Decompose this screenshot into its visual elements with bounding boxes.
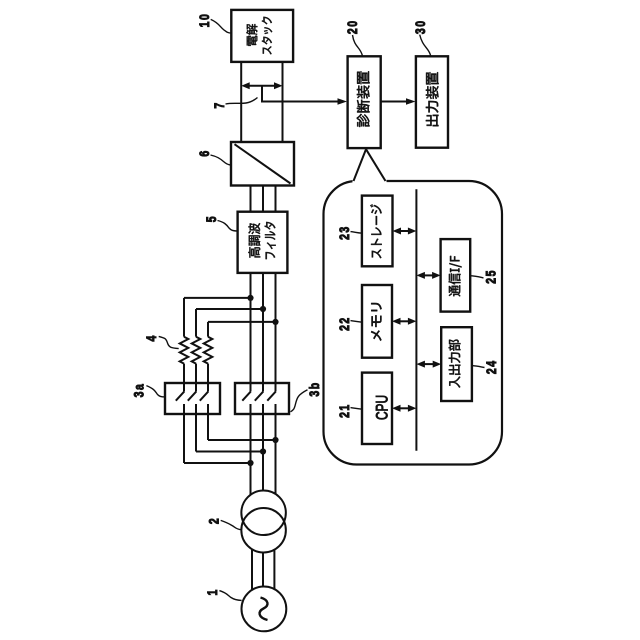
arrowhead into diagnostic device 20 [336,101,339,103]
leader line for numeral 30 [420,35,431,56]
AC power source circle 1 [242,587,287,632]
internal bus line [415,189,417,451]
svg-text:10: 10 [196,13,212,28]
balloon tail upper line [354,149,367,181]
wire: branch return jog phase 2 [196,451,263,453]
switch blade 3a pole 2 [188,391,197,400]
leader line for numeral 23 [351,232,363,234]
wire: filter 5 to converter 6, phase 1 [250,186,252,212]
leader line for numeral 7 [226,98,258,105]
label text "高調波" (line 1, box 5) [248,223,260,258]
wire: filter 5 to converter 6, phase 2 [262,186,264,212]
wire: branch 1 right segment (resistor to tap) [183,298,185,337]
balloon tail lower line [366,149,386,181]
output device box 30 [416,56,448,147]
label text "メモリ" (box 22) [371,303,382,341]
svg-text:1: 1 [205,588,221,595]
CPU box 21 [362,373,392,444]
wire: branch tap jog phase 2 [196,308,263,310]
double-headed measurement arrow 7 across DC rails [248,85,275,87]
label text "診断装置" (box 20) [357,71,370,127]
leader line for numeral 2 [221,520,242,529]
leader line for numeral 10 [211,19,232,33]
leader line for numeral 3a [146,386,165,397]
double arrow: bus to communication I/F [423,274,433,276]
leader line for numeral 21 [351,408,363,410]
leader line for numeral 20 [353,35,363,56]
label text "フィルタ" (line 2, box 5) [264,222,275,259]
storage box 23 [362,196,393,267]
wire: measurement tap from arrow 7 toward diagnostic device [262,86,337,102]
wire: source to transformer, phase 1 [251,549,253,590]
converter diagonal line [235,144,291,183]
svg-text:7: 7 [212,101,228,108]
transformer 2, left winding circle [241,508,286,553]
resistor on branch 2 [192,337,201,364]
transformer 2, right winding circle [241,491,286,536]
svg-text:24: 24 [484,359,500,374]
electrolysis stack box 10 [231,10,293,62]
wire: DC rail 1, converter 6 to stack 10 [240,62,242,142]
leader line for numeral 22 [351,321,363,323]
switch box 3a (breaker on measuring branch) [165,383,220,414]
wire: branch 2 middle segment [195,364,197,392]
wire: source to transformer, phase 3 [273,550,275,590]
leader line for numeral 25 [470,276,483,278]
leader line for numeral 5 [218,221,237,232]
svg-text:4: 4 [144,334,160,341]
svg-text:3b: 3b [307,381,323,396]
communication I/F box 25 [441,239,471,312]
wire: branch 2 left segment [195,404,197,452]
label text "出力装置" (box 30) [426,72,439,126]
switch box 3b (breaker on main lines) [235,383,289,414]
I/O unit box 24 [441,327,472,401]
svg-text:6: 6 [197,149,213,156]
switch blade 3b pole 2 [255,391,263,400]
double arrow: bus to I/O unit [423,363,434,365]
node B1: junction dot on phase 1 at branch tap [247,295,253,301]
double arrow: storage to bus [400,230,410,232]
wire: phase 1, switch 3b to filter 5 [250,273,252,392]
wire: branch tap jog phase 1 [184,297,251,299]
svg-text:5: 5 [204,215,220,222]
wire: branch 1 left segment [183,404,185,463]
wire: source to transformer, phase 2 [262,553,264,587]
wire: branch return jog phase 1 [184,462,251,464]
double arrow: memory to bus [399,320,409,322]
arrow: diagnostic device 20 to output device 30 [381,101,406,103]
svg-text:21: 21 [337,403,353,418]
leader line for numeral 6 [211,155,231,165]
svg-text:20: 20 [345,19,361,34]
node A2: junction dot on phase 2 at filter branch return [260,448,266,454]
wire: transformer to node A2, phase 2 (middle) [262,404,264,491]
wire: phase 3, switch 3b to filter 5 [275,273,277,392]
diagnostic device box 20 [348,56,381,148]
wire: branch 3 right segment [207,322,209,337]
AC/DC converter box 6 [231,142,294,186]
switch blade 3b pole 3 [267,391,276,400]
memory box 22 [362,285,392,358]
wire: DC rail 2, converter 6 to stack 10 [282,62,284,142]
wire: branch 3 left segment [207,404,209,440]
wire: transformer to node A1, phase 1 (top) [250,404,252,495]
node B3: junction dot on phase 3 at branch tap [272,319,278,325]
wire: transformer to node A3, phase 3 (bottom) [275,404,277,494]
label text "通信I/F" (box 25) [448,256,461,296]
svg-text:22: 22 [337,316,353,331]
wire: filter 5 to converter 6, phase 3 [275,186,277,212]
resistor 4 on branch 1 [180,337,189,364]
label text "電解" (line 1, box 10) [246,24,257,46]
svg-text:2: 2 [206,517,222,524]
svg-text:23: 23 [337,225,353,240]
node A3: junction dot on phase 3 at filter branch return [272,437,278,443]
svg-text:CPU: CPU [372,395,391,420]
leader line for numeral 24 [472,366,485,368]
label text "ストレージ" (box 23) [370,204,382,258]
callout balloon around diagnostic device internals [324,181,503,465]
resistor on branch 3 [204,337,213,364]
svg-text:25: 25 [483,269,499,284]
node B2: junction dot on phase 2 at branch tap [260,306,266,312]
svg-text:30: 30 [413,19,429,34]
node A1: junction dot on phase 1 at filter branch return [247,460,253,466]
wire: branch return jog phase 3 [208,439,276,441]
double arrow: CPU to bus [399,407,409,409]
wire: phase 2, switch 3b to filter 5 [262,273,264,392]
wire: branch 3 middle segment [207,364,209,392]
wire: branch tap jog phase 3 [208,321,276,323]
label text "入出力部" (box 24) [449,340,461,388]
wire: branch 1 middle segment (switch to resistor) [183,364,185,392]
svg-text:3a: 3a [131,383,147,398]
harmonic filter box 5 [238,212,288,273]
switch blade 3a pole 3 [200,391,209,400]
label text "スタック" (line 2, box 10) [262,17,273,55]
gap in balloon edge for tail [353,179,387,183]
wire: branch 2 right segment [195,309,197,337]
switch blade 3b pole 1 [242,391,251,400]
leader line for numeral 4 [159,336,179,348]
AC tilde symbol inside source 1 [260,598,268,621]
leader line for numeral 3b [291,390,308,412]
leader line for numeral 1 [219,591,241,601]
switch blade 3a pole 1 [176,391,185,400]
